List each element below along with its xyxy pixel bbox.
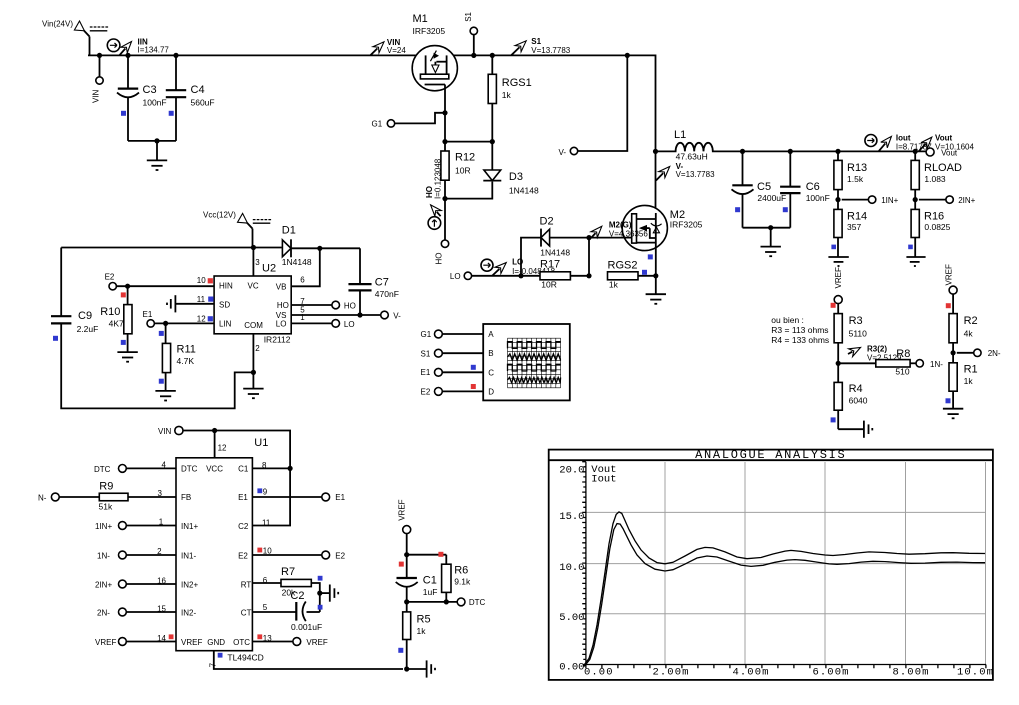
svg-text:2IN+: 2IN+ — [958, 196, 975, 205]
ground (R7, sideways) — [320, 585, 338, 602]
IC U2 IR2112 — [197, 248, 305, 354]
svg-text:1k: 1k — [502, 90, 512, 100]
diode D1 1N4148 — [282, 224, 312, 267]
resistor R12 10R — [441, 151, 475, 199]
svg-text:C5: C5 — [757, 181, 771, 193]
svg-text:VIN: VIN — [158, 427, 172, 436]
diode D2 1N4148 — [521, 216, 589, 276]
svg-text:5110: 5110 — [849, 328, 868, 338]
current probe HO — [428, 205, 441, 229]
svg-text:9: 9 — [263, 487, 268, 496]
terminal N- and resistor R9 51k — [38, 480, 176, 511]
svg-text:2N-: 2N- — [97, 608, 110, 617]
terminal 2N- — [974, 349, 1001, 358]
scope trace A (square) — [508, 342, 561, 349]
terminal VIN (U1 supply) — [158, 426, 290, 467]
capacitor C6 100nF — [780, 151, 830, 227]
junction Vcc/VC pin — [251, 245, 256, 250]
svg-text:0.001uF: 0.001uF — [291, 622, 322, 632]
terminal S1 (top) — [464, 11, 478, 55]
svg-text:I=134.77: I=134.77 — [138, 46, 170, 55]
resistor R16 0.0825 — [908, 209, 950, 257]
svg-text:D2: D2 — [540, 216, 554, 228]
terminal E1 (scope C) — [421, 365, 484, 377]
svg-text:VREF: VREF — [181, 638, 202, 647]
svg-text:R14: R14 — [847, 210, 867, 222]
wire COM pin — [252, 334, 254, 373]
terminal DTC (right) — [457, 598, 485, 607]
svg-text:12: 12 — [197, 315, 206, 324]
svg-text:ou bien :: ou bien : — [771, 315, 804, 325]
svg-text:TL494CD: TL494CD — [227, 652, 263, 662]
wire R12/D3 top link — [445, 141, 492, 143]
svg-text:LO: LO — [276, 320, 287, 329]
svg-text:R11: R11 — [177, 344, 196, 356]
svg-text:RLOAD: RLOAD — [924, 162, 962, 174]
svg-text:11: 11 — [197, 295, 206, 304]
ground (R4, sideways) — [838, 421, 872, 438]
terminal 2IN+ — [946, 196, 976, 205]
terminal VIN — [92, 55, 104, 103]
terminal 1N- — [916, 360, 943, 369]
svg-text:D3: D3 — [509, 171, 523, 183]
svg-text:HO: HO — [277, 301, 289, 310]
wire E2 row / terminal E2 — [252, 551, 345, 560]
terminal V- (U2) — [381, 311, 401, 320]
junction R5/GND rail — [404, 666, 409, 671]
wire top rail (VIN net) — [88, 55, 656, 151]
wire switch node to M2 drain — [655, 151, 657, 213]
svg-text:DTC: DTC — [94, 465, 111, 474]
junction R2/R1 2N- — [951, 350, 974, 355]
junction rail/C5 — [740, 149, 745, 154]
svg-text:6.00m: 6.00m — [813, 667, 850, 679]
capacitor C3 100nF — [117, 55, 167, 140]
ground (SD pin, sideways) — [167, 295, 214, 312]
junction rail/R13 — [835, 149, 840, 154]
resistor RGS2 1k — [608, 259, 656, 289]
junction rail/VIN terminal — [97, 53, 102, 58]
wire Vin to top rail — [89, 37, 91, 56]
wire HIN row (E2 net) — [116, 285, 214, 287]
svg-text:VREF: VREF — [95, 638, 116, 647]
svg-text:9.1k: 9.1k — [454, 576, 471, 586]
svg-text:47.63uH: 47.63uH — [676, 151, 708, 161]
ground (input filter) — [147, 141, 167, 170]
svg-text:C3: C3 — [143, 84, 157, 96]
svg-text:R13: R13 — [847, 162, 867, 174]
wire VB riser — [291, 248, 320, 286]
svg-text:4.7K: 4.7K — [177, 356, 195, 366]
svg-text:D1: D1 — [282, 224, 296, 236]
terminal LO (gate drive in) — [450, 272, 540, 281]
ground (U2 COM) — [243, 372, 263, 398]
resistor R6 9.1k — [442, 555, 471, 602]
terminal HO (gate drive) — [435, 199, 449, 265]
IC U1 TL494CD — [176, 437, 268, 662]
svg-text:2400uF: 2400uF — [757, 193, 786, 203]
svg-text:U2: U2 — [262, 263, 276, 275]
terminal DTC (left) — [94, 465, 176, 474]
svg-text:100nF: 100nF — [806, 193, 830, 203]
junction D3 top — [490, 139, 495, 144]
terminal S1 (scope B) — [421, 349, 484, 358]
svg-text:51k: 51k — [99, 502, 113, 512]
svg-text:G1: G1 — [372, 120, 383, 129]
plot y-axis labels — [559, 465, 584, 674]
terminal 2IN+ (left) — [95, 580, 176, 589]
resistor R5 1k — [398, 602, 430, 669]
plot legend — [591, 464, 616, 485]
junction R3/R4/R8 — [836, 361, 841, 366]
svg-text:R3(2): R3(2) — [867, 344, 887, 353]
svg-text:1k: 1k — [417, 626, 427, 636]
plot curve Vout — [583, 512, 985, 667]
terminal 2N- (left) — [97, 608, 176, 617]
svg-text:0.00: 0.00 — [584, 667, 614, 679]
svg-text:E1: E1 — [335, 493, 345, 502]
svg-text:C6: C6 — [806, 181, 820, 193]
ground (R11) — [155, 391, 175, 401]
svg-text:1N4148: 1N4148 — [540, 247, 570, 257]
pin marker squares (M2) — [642, 254, 653, 274]
capacitor C4 560uF — [166, 55, 215, 140]
svg-text:OTC: OTC — [233, 638, 250, 647]
svg-text:IR2112: IR2112 — [264, 335, 291, 345]
resistor R10 4K7 — [100, 286, 132, 352]
terminal VREF (R3) — [831, 296, 843, 314]
svg-text:E1: E1 — [238, 493, 248, 502]
svg-text:12: 12 — [218, 443, 227, 452]
voltage probe V- V=13.7783 — [656, 162, 715, 181]
resistor R8 510 — [838, 348, 916, 377]
svg-text:IN2-: IN2- — [181, 608, 196, 617]
oscilloscope box — [483, 324, 570, 400]
svg-text:1k: 1k — [609, 280, 619, 290]
svg-text:R4: R4 — [849, 383, 863, 395]
svg-text:C9: C9 — [78, 310, 92, 322]
voltage probe S1 V=13.7783 — [511, 37, 570, 55]
capacitor C1 1uF — [396, 574, 438, 602]
svg-text:4.00m: 4.00m — [733, 667, 770, 679]
junction rail/S1 — [471, 53, 476, 58]
transistor M1 IRF3205 — [412, 13, 457, 113]
junction M1 gate — [442, 110, 447, 115]
svg-text:VS: VS — [276, 311, 287, 320]
wire D2 to M2 gate — [589, 237, 623, 239]
wire output rail (Vout net) — [743, 150, 927, 152]
svg-text:CT: CT — [241, 608, 252, 617]
svg-text:E1: E1 — [143, 310, 153, 319]
diode D3 1N4148 — [445, 142, 539, 199]
probe label HO I=0.123048 (rotated) — [425, 158, 443, 199]
svg-text:VIN: VIN — [92, 89, 101, 103]
analysis plot frame — [549, 450, 993, 680]
svg-text:2N-: 2N- — [988, 349, 1001, 358]
junction R17/D2 right — [586, 235, 591, 278]
ground (R16) — [906, 257, 925, 266]
current probe Iout I=8.71787 — [865, 134, 932, 152]
svg-text:N-: N- — [38, 494, 47, 503]
current probe IIN I=134.77 — [107, 38, 169, 56]
svg-text:DTC: DTC — [469, 598, 486, 607]
wire U1 GND pin — [209, 651, 404, 669]
ground (R5, sideways) — [407, 660, 435, 677]
svg-text:IN1-: IN1- — [181, 552, 196, 561]
terminal LO (U2 out) — [291, 320, 354, 329]
svg-text:357: 357 — [847, 222, 861, 232]
current probe LO I=-0.048418 — [481, 258, 556, 276]
svg-text:C2: C2 — [238, 522, 249, 531]
svg-text:560uF: 560uF — [191, 98, 215, 108]
voltage probe R3(2) V=2.5129 — [848, 344, 902, 362]
svg-text:1.5k: 1.5k — [847, 174, 864, 184]
wire C3/C4 bottom — [128, 140, 176, 142]
resistor R1 1k — [946, 363, 978, 409]
junction VIN/VCC pin — [212, 428, 217, 433]
plot x-axis labels — [584, 667, 994, 679]
svg-text:RT: RT — [241, 580, 252, 589]
resistor RGS1 1k — [488, 55, 532, 141]
ground (output filter) — [761, 228, 781, 257]
svg-text:V-: V- — [559, 148, 567, 157]
svg-text:4k: 4k — [964, 328, 974, 338]
capacitor C5 2400uF — [732, 151, 787, 227]
terminal E2 (left) — [105, 273, 117, 290]
wire M1 gate to R12 — [444, 113, 446, 151]
svg-text:Iout: Iout — [896, 134, 911, 143]
svg-text:R1: R1 — [964, 364, 978, 376]
junction rail/RGS1 — [490, 53, 495, 58]
junction rail/C4 — [173, 53, 178, 58]
terminal VREF (C1/R5) — [398, 499, 411, 578]
svg-text:VCC: VCC — [206, 465, 223, 474]
svg-text:100nF: 100nF — [143, 98, 167, 108]
svg-text:E2: E2 — [105, 273, 115, 282]
resistor R4 6040 — [831, 363, 868, 429]
svg-text:4K7: 4K7 — [109, 318, 124, 328]
svg-text:S1: S1 — [464, 11, 473, 21]
capacitor C2 0.001uF — [252, 590, 322, 632]
scope trace B (triangle) — [508, 354, 561, 361]
junction COM/loop — [251, 370, 256, 375]
U1 left pin numbers — [157, 461, 173, 643]
junction RLOAD/R16 2IN+ — [913, 197, 946, 202]
inductor L1 47.63uH — [656, 129, 743, 161]
svg-text:10: 10 — [263, 546, 272, 555]
svg-text:E2: E2 — [421, 387, 431, 396]
svg-text:C: C — [488, 368, 494, 377]
svg-text:R5: R5 — [417, 613, 431, 625]
svg-text:0.0825: 0.0825 — [924, 222, 950, 232]
svg-text:VREF: VREF — [834, 267, 843, 288]
ground (R10) — [117, 352, 137, 362]
junction R12 bottom / HO — [442, 196, 447, 201]
svg-text:C2: C2 — [290, 590, 304, 602]
svg-text:R7: R7 — [281, 566, 295, 578]
svg-text:6: 6 — [300, 276, 305, 285]
svg-text:R2: R2 — [964, 315, 978, 327]
svg-text:SD: SD — [219, 300, 230, 309]
terminal VREF (pin14) — [95, 638, 176, 648]
svg-text:R10: R10 — [100, 306, 120, 318]
terminal Vout — [926, 148, 958, 157]
svg-text:1uF: 1uF — [423, 587, 438, 597]
terminal E2 (scope D) — [421, 384, 484, 396]
svg-text:M2(G): M2(G) — [609, 220, 632, 229]
svg-text:C7: C7 — [375, 276, 389, 288]
svg-text:D: D — [488, 387, 494, 396]
wire C5/C6 bottom — [743, 227, 791, 229]
svg-text:LIN: LIN — [219, 319, 232, 328]
ground (R1) — [943, 409, 963, 419]
svg-text:I=0.123048: I=0.123048 — [434, 158, 443, 199]
svg-text:HO: HO — [435, 253, 444, 265]
svg-text:8.00m: 8.00m — [893, 667, 930, 679]
power terminal Vcc(12V) — [203, 211, 271, 248]
svg-text:2IN+: 2IN+ — [95, 580, 112, 589]
svg-text:E2: E2 — [238, 552, 248, 561]
wire Vcc rail (U2 top) — [61, 247, 282, 249]
terminal G1 (scope A) — [421, 330, 484, 339]
terminal G1 (M1 gate) — [372, 113, 446, 129]
terminal 1IN+ — [868, 196, 898, 205]
resistor RLOAD 1.083 — [911, 151, 962, 209]
svg-text:15.0: 15.0 — [559, 511, 584, 523]
svg-text:1k: 1k — [964, 376, 974, 386]
resistor R13 1.5k — [834, 151, 867, 209]
svg-text:U1: U1 — [254, 437, 268, 449]
svg-text:C4: C4 — [191, 84, 205, 96]
capacitor C7 470nF — [348, 248, 398, 315]
voltage probe Vout V=10.1604 — [919, 134, 975, 152]
svg-text:IN1+: IN1+ — [181, 522, 198, 531]
svg-text:FB: FB — [181, 493, 191, 502]
svg-text:RGS2: RGS2 — [608, 259, 638, 271]
svg-text:Vout: Vout — [935, 134, 953, 143]
svg-text:10.0m: 10.0m — [957, 667, 994, 679]
svg-text:10.0: 10.0 — [559, 562, 584, 574]
junction M2 source / RGS2 — [653, 273, 658, 278]
svg-text:E2: E2 — [335, 551, 345, 560]
svg-text:M1: M1 — [413, 13, 428, 25]
svg-text:510: 510 — [895, 367, 909, 377]
resistor R3 5110 — [834, 314, 867, 364]
plot gridlines — [586, 462, 986, 665]
junction R13/R14 1IN+ — [835, 197, 868, 202]
label VREF (rotated, R3 feed) — [834, 266, 843, 289]
junction switch node / L1 — [653, 149, 658, 154]
svg-text:R12: R12 — [455, 152, 475, 164]
svg-text:V=13.7783: V=13.7783 — [531, 46, 570, 55]
svg-text:7: 7 — [209, 662, 218, 667]
junction E2/R10 — [121, 284, 130, 298]
svg-text:1N-: 1N- — [97, 552, 110, 561]
svg-text:RGS1: RGS1 — [502, 77, 532, 89]
svg-text:470nF: 470nF — [375, 289, 399, 299]
svg-text:2.00m: 2.00m — [653, 667, 690, 679]
terminal E1 (left) — [143, 310, 155, 327]
svg-text:LO: LO — [450, 272, 461, 281]
resistor R11 4.7K — [159, 323, 196, 391]
svg-text:S1: S1 — [421, 349, 431, 358]
svg-text:C1: C1 — [238, 465, 249, 474]
scope trace D (triangle) — [508, 377, 561, 382]
terminal VREF (R2) — [944, 264, 957, 314]
junction rail/C6 — [788, 149, 793, 154]
junction R7/C2/ground — [317, 591, 322, 610]
svg-text:2.2uF: 2.2uF — [77, 324, 99, 334]
svg-text:HIN: HIN — [219, 282, 233, 291]
svg-text:1N4148: 1N4148 — [282, 257, 312, 267]
resistor R14 357 — [831, 209, 867, 257]
svg-text:DTC: DTC — [181, 465, 198, 474]
svg-text:V=13.7783: V=13.7783 — [676, 170, 715, 179]
svg-text:ANALOGUE ANALYSIS: ANALOGUE ANALYSIS — [695, 448, 846, 462]
svg-text:1.083: 1.083 — [924, 174, 946, 184]
svg-text:5: 5 — [263, 603, 268, 612]
svg-text:R6: R6 — [454, 564, 468, 576]
svg-text:0.00: 0.00 — [559, 661, 584, 673]
junction C1/R6/DTC — [404, 599, 457, 604]
resistor R2 4k — [949, 314, 978, 363]
svg-text:L1: L1 — [674, 129, 686, 141]
svg-text:IRF3205: IRF3205 — [670, 220, 703, 230]
svg-text:3: 3 — [255, 258, 260, 267]
wire VS row to V- — [291, 312, 380, 317]
svg-text:5.00: 5.00 — [559, 612, 584, 624]
svg-text:1IN+: 1IN+ — [95, 522, 112, 531]
resistor R7 20k — [252, 566, 322, 612]
svg-text:R3: R3 — [849, 315, 863, 327]
svg-text:VB: VB — [276, 282, 287, 291]
svg-text:IN2+: IN2+ — [181, 580, 198, 589]
svg-text:Iout: Iout — [591, 474, 616, 486]
svg-text:S1: S1 — [531, 37, 541, 46]
svg-text:1N4148: 1N4148 — [509, 186, 539, 196]
svg-text:C1: C1 — [423, 574, 437, 586]
voltage probe VIN V=24 — [371, 38, 407, 55]
svg-text:V-: V- — [393, 312, 401, 321]
svg-text:HO: HO — [344, 301, 356, 310]
svg-text:Vout: Vout — [941, 148, 958, 157]
svg-text:B: B — [488, 349, 493, 358]
wire E1 row / terminal E1 — [252, 493, 345, 502]
svg-text:Vin(24V): Vin(24V) — [42, 20, 73, 29]
ground (R14) — [828, 257, 848, 262]
svg-text:R16: R16 — [924, 210, 944, 222]
terminal HO (U2 out) — [291, 301, 356, 310]
plot axes — [582, 462, 986, 669]
note ou bien R3/R4 — [771, 315, 829, 345]
svg-text:E1: E1 — [421, 368, 431, 377]
power terminal Vin(24V) — [42, 20, 108, 37]
terminal V- (switch node) — [559, 55, 628, 156]
junction C5-C6 ground — [768, 225, 773, 230]
svg-text:2: 2 — [255, 344, 260, 353]
svg-text:R9: R9 — [99, 480, 113, 492]
svg-text:1IN+: 1IN+ — [881, 196, 898, 205]
svg-text:G1: G1 — [421, 330, 432, 339]
svg-text:LO: LO — [344, 320, 355, 329]
junction rail/RLOAD — [913, 149, 918, 154]
junction VREF/R6 — [404, 552, 446, 558]
junction rail/C3 — [125, 53, 130, 58]
plot title ANALOGUE ANALYSIS — [695, 448, 846, 462]
transistor M2 IRF3205 — [622, 205, 702, 275]
svg-text:COM: COM — [244, 321, 263, 330]
scope channel labels — [488, 330, 494, 396]
